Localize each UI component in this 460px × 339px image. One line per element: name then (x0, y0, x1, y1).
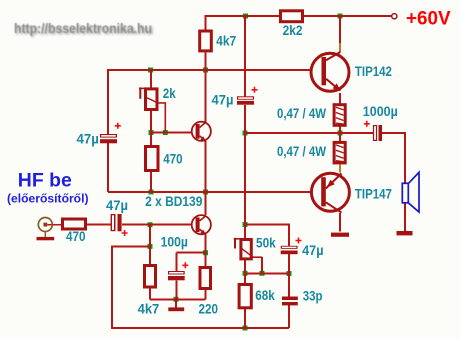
capacitor 47u input (horizontal) (111, 214, 128, 236)
wire 4k7 top pin (205, 15, 207, 30)
resistor 0,47/4W lower (334, 142, 345, 163)
wire x=150 base rail down to 4k7 (149, 225, 151, 300)
svg-text:HF be: HF be (18, 169, 72, 191)
wire x=245 rail long (244, 105, 246, 328)
wire 100u branch (176, 253, 206, 308)
wire output y=133 right part (382, 132, 405, 134)
trimmer 2k (139, 87, 159, 109)
speaker (402, 172, 419, 212)
ground TIP147 (331, 233, 349, 237)
trimmer 50k (234, 238, 253, 259)
node y273 / x289 (287, 271, 292, 276)
transistor Q2 TIP147 (311, 173, 349, 212)
node y192 / x205 (203, 190, 208, 195)
wire y=299.3 under 4k7/220 (150, 298, 206, 300)
op terminal +60V circle (392, 14, 397, 19)
ground input connector (37, 237, 55, 240)
node y299 / x176 (174, 297, 179, 302)
transistor Q1 TIP142 (311, 52, 349, 91)
capacitor 100u (168, 262, 188, 280)
wire feedback bottom y=328 (111, 327, 289, 329)
wire x=151 rail through 2k and 470 (150, 70, 152, 192)
resistor 4k7 bottom (145, 266, 156, 288)
wire 220 bottom pin (205, 290, 207, 299)
node y70 / x150 (148, 68, 153, 73)
wire BD139 lower emitter to 220 (205, 235, 207, 266)
wire horizontal y=192 to TIP147 base (108, 191, 322, 193)
svg-text:47µ: 47µ (77, 131, 99, 146)
svg-text:+60V: +60V (406, 8, 451, 29)
wire BD139 upper emitter to y=192 (205, 141, 207, 192)
pin TIP147 emitter stub (339, 164, 341, 172)
capacitor 1000u (364, 121, 382, 141)
transistor Q4 BD139 lower (192, 215, 211, 235)
svg-text:50k: 50k (256, 236, 276, 251)
svg-text:TIP142: TIP142 (355, 64, 392, 79)
svg-text:4k7: 4k7 (138, 301, 160, 316)
resistor 470 mid (146, 147, 159, 171)
wire 50k wiper drop (261, 257, 263, 273)
node y328 / x245 (243, 326, 248, 331)
svg-text:2k2: 2k2 (283, 23, 303, 38)
wire horizontal y=70 to TIP142 base (108, 69, 322, 71)
svg-text:0,47 / 4W: 0,47 / 4W (277, 144, 326, 159)
wire 50k wiper (253, 256, 263, 258)
wire x=289 lower (288, 305, 290, 328)
svg-text:1000µ: 1000µ (363, 104, 398, 119)
resistor 470 input (63, 219, 86, 229)
node top rail / x340 (338, 14, 343, 19)
node y133 / x340 output (338, 131, 343, 136)
wire x=245 rail top (244, 16, 246, 96)
watermark (14, 21, 154, 38)
node y224 / x245 (243, 222, 248, 227)
resistor 2k2 (281, 11, 303, 22)
node y246 / x150 (148, 244, 153, 249)
node y273 / x245 (243, 271, 248, 276)
resistor 4k7 top (200, 31, 212, 51)
svg-text:68k: 68k (255, 288, 275, 303)
node y252 / x205 (203, 250, 208, 255)
wire x=289 upper (288, 224, 290, 247)
connector input jack (38, 218, 52, 237)
svg-text:http://bsselektronika.hu: http://bsselektronika.hu (14, 21, 152, 36)
svg-text:100µ: 100µ (161, 234, 188, 249)
ground speaker (397, 231, 413, 235)
pin TIP142 collector stub (339, 43, 341, 52)
wire 4k7 bottom pin (205, 52, 207, 70)
svg-text:(előerősítőről): (előerősítőről) (7, 192, 89, 206)
node y132 / x165 wiper (163, 130, 168, 135)
svg-text:47µ: 47µ (212, 93, 234, 108)
capacitor 47u right (x289) (281, 238, 302, 255)
resistor 68k (239, 285, 251, 308)
wire BD139 lower collector (205, 192, 207, 215)
node y273 / x262 (260, 271, 265, 276)
node y192 / x151 (149, 190, 154, 195)
wire BD139 base feed y=132.5 (151, 132, 196, 134)
node y70 / x205 (203, 68, 208, 73)
svg-text:47µ: 47µ (302, 243, 323, 258)
wire feedback left x=112 (111, 245, 113, 328)
wire TIP142 emitter to 0.47 chain (339, 93, 341, 141)
wire y=273.3 (245, 272, 289, 274)
node top rail / x245 (243, 14, 248, 19)
svg-text:4k7: 4k7 (216, 33, 236, 48)
wire speaker rail x=405 (404, 132, 406, 232)
svg-text:220: 220 (199, 301, 219, 316)
wire top rail y=16 (206, 15, 393, 17)
wire feedback y=246.4 (112, 245, 150, 247)
wire x=289 middle (288, 254, 290, 297)
svg-text:47µ: 47µ (106, 198, 128, 213)
wire 470 to cap (87, 224, 111, 226)
wire TIP142 collector from top rail (339, 16, 341, 52)
node y224 / x150 (148, 222, 153, 227)
node y132 / x151 (149, 130, 154, 135)
svg-text:33p: 33p (303, 288, 323, 303)
ground under 100u (168, 307, 184, 311)
svg-text:470: 470 (66, 229, 86, 244)
svg-text:2 x BD139: 2 x BD139 (145, 194, 202, 209)
capacitor 47u mid (x245) (237, 87, 258, 105)
wire output y=133 left part (245, 132, 373, 134)
wire 2k wiper (158, 103, 262, 257)
wire input to BD139 lower base y=224.7 (122, 224, 196, 226)
resistor 220 (200, 268, 211, 289)
capacitor 33p (282, 297, 298, 306)
svg-text:470: 470 (163, 152, 182, 167)
svg-text:2k: 2k (163, 86, 176, 101)
node y133 / x245 (243, 131, 248, 136)
wire TIP147 collector to ground (339, 213, 341, 232)
wire left rail x=108 lower (107, 143, 109, 192)
wire BD139 upper collector (205, 70, 207, 122)
wire left rail x=108 upper (107, 69, 109, 134)
resistor 0,47/4W upper (334, 105, 345, 126)
svg-text:0,47 / 4W: 0,47 / 4W (277, 106, 326, 121)
wire y=224.5 node to 47u right (245, 224, 289, 226)
capacitor 47u left (x108) (100, 123, 121, 144)
wire connector to 470 (48, 224, 62, 226)
transistor Q3 BD139 upper (192, 122, 211, 142)
svg-text:TIP147: TIP147 (355, 186, 392, 201)
